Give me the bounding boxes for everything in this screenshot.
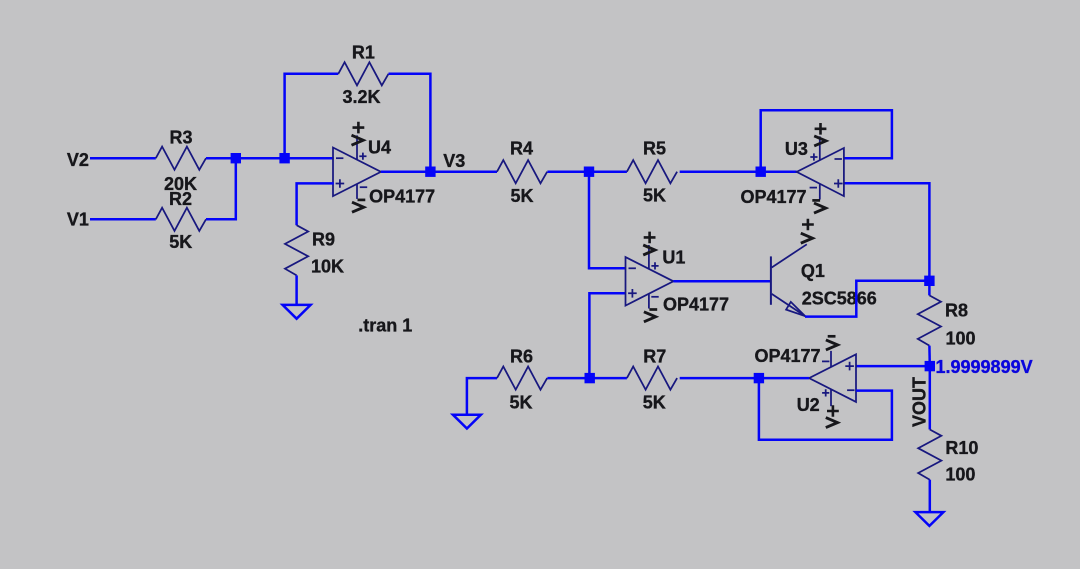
U2 V- pin marker [822, 360, 829, 362]
junction C [584, 167, 594, 177]
Q1 emitter line [772, 294, 806, 316]
wire junction E up to U1 non-inverting input [589, 293, 625, 378]
svg-text:R3: R3 [169, 127, 192, 147]
U2 V- power pin [830, 351, 832, 367]
svg-text:R8: R8 [945, 301, 968, 321]
svg-text:5K: 5K [169, 232, 192, 252]
resistor R3 [156, 147, 206, 170]
svg-text:10K: 10K [311, 257, 344, 277]
U4 V- power pin [356, 184, 358, 199]
wire junction B up to R1 [285, 74, 339, 158]
wire R6 to junction E [547, 377, 589, 380]
wire R3 to junction A [206, 157, 236, 160]
resistor R6 [497, 367, 547, 390]
resistor R2 [156, 208, 206, 231]
junction F [924, 276, 934, 286]
U3 V+ pin marker [810, 153, 817, 160]
resistor R9 [285, 225, 308, 275]
resistor R8 [918, 295, 941, 345]
wire junction B to U4 inverting input [285, 157, 334, 160]
svg-text:3.2K: 3.2K [342, 87, 380, 107]
svg-text:R9: R9 [312, 229, 335, 249]
net label V+ at U1 [644, 232, 656, 244]
net label V- at U3 [812, 199, 820, 202]
wire junction E to R7 [590, 377, 627, 380]
ground at R9 [283, 305, 311, 319]
net label V+ at U4 [353, 122, 365, 134]
wire junction F to R8 [928, 281, 931, 296]
Q1 emitter arrow [786, 302, 805, 316]
svg-text:U1: U1 [662, 247, 685, 267]
wire R7 to junction H [680, 377, 759, 380]
svg-text:5K: 5K [643, 186, 666, 206]
junction G [925, 361, 935, 371]
U2 inverting input marker [847, 389, 854, 391]
ground at R6 [453, 415, 481, 429]
junction H [754, 373, 764, 383]
U4 V- pin marker [360, 186, 367, 188]
svg-text:.tran 1: .tran 1 [358, 315, 412, 335]
svg-text:Q1: Q1 [801, 261, 825, 281]
ground at R10 [915, 512, 943, 526]
svg-text:V3: V3 [443, 151, 465, 171]
svg-text:U3: U3 [785, 139, 808, 159]
U1 inverting input marker [629, 267, 636, 269]
svg-text:U2: U2 [797, 395, 820, 415]
svg-text:V1: V1 [67, 209, 89, 229]
net label V- at U4 [358, 199, 366, 202]
U4 V+ pin marker [359, 153, 366, 160]
net label V- at U2 [828, 335, 836, 338]
wire junction D to U3 output [761, 170, 797, 173]
wire junction G to U2 non-inverting input [856, 365, 930, 368]
svg-text:R4: R4 [510, 139, 533, 159]
svg-text:2SC5866: 2SC5866 [802, 288, 877, 308]
svg-text:OP4177: OP4177 [741, 187, 807, 207]
transistor Q1 base bar [770, 256, 772, 304]
svg-text:5K: 5K [510, 186, 533, 206]
resistor R1 [338, 62, 388, 85]
svg-text:100: 100 [946, 328, 976, 348]
U3 non-inverting input marker [834, 179, 843, 188]
net label V+ at U2 [827, 405, 839, 417]
svg-text:5K: 5K [509, 393, 532, 413]
U3 V+ power pin [819, 136, 821, 160]
junction A [231, 153, 241, 163]
wire V1 lead [90, 218, 156, 221]
svg-text:R10: R10 [945, 438, 978, 458]
U4 V+ power pin [356, 135, 358, 159]
wire R5 to junction D [680, 170, 761, 173]
Q1 collector line [772, 244, 807, 267]
wire R2 up to junction A [206, 158, 236, 219]
wire R8 to junction G [928, 346, 931, 367]
wire U2 output to junction H [759, 377, 809, 380]
svg-text:R5: R5 [643, 139, 666, 159]
svg-text:R2: R2 [169, 189, 192, 209]
svg-text:100: 100 [945, 464, 975, 484]
U2 V+ pin marker [822, 389, 829, 396]
svg-text:R6: R6 [510, 347, 533, 367]
op-amp U1 triangle [626, 257, 674, 306]
U3 V- power pin [819, 184, 821, 199]
wire U4 non-inverting input to R9 [297, 183, 334, 225]
junction E [585, 373, 595, 383]
U4 non-inverting input marker [336, 179, 345, 188]
U4 inverting input marker [336, 157, 343, 159]
wire Q1 emitter to junction F [805, 281, 929, 317]
U1 V- pin marker [651, 296, 658, 298]
svg-text:U4: U4 [368, 137, 391, 157]
resistor R5 [627, 160, 677, 183]
U1 non-inverting input marker [628, 289, 637, 298]
wire ground to R6 [467, 378, 497, 415]
net label V- at U1 [649, 308, 657, 311]
wire U4 output to V3 node [381, 170, 430, 173]
U3 inverting input marker [835, 158, 842, 160]
U2 V+ power pin [830, 389, 832, 406]
wire U3 feedback loop [761, 110, 892, 171]
junction V3 [425, 167, 435, 177]
U1 V+ power pin [648, 245, 650, 269]
svg-text:V2: V2 [67, 150, 89, 170]
wire U1 output to Q1 base [673, 280, 771, 283]
wire R9 to ground [295, 275, 298, 305]
junction B [279, 153, 289, 163]
op-amp U2 triangle [809, 354, 856, 402]
wire V2 lead [90, 157, 156, 160]
wire junction G down to R10 [929, 366, 932, 429]
net label V+ at U3 [815, 123, 827, 135]
op-amp U3 triangle [797, 148, 844, 196]
U2 non-inverting input marker [845, 362, 854, 371]
resistor R7 [627, 367, 677, 390]
wire R1 down to V3 node [389, 74, 431, 172]
wire U3 non-inverting input down to junction F [844, 183, 930, 281]
svg-text:OP4177: OP4177 [755, 346, 821, 366]
resistor R10 [918, 430, 941, 480]
svg-text:R7: R7 [643, 347, 666, 367]
U3 V- pin marker [810, 187, 817, 189]
svg-text:OP4177: OP4177 [369, 187, 435, 207]
junction D [756, 167, 766, 177]
U1 V+ pin marker [651, 262, 658, 269]
wire R10 to ground [929, 480, 932, 513]
wire junction C to R5 [589, 170, 627, 173]
wire U2 feedback loop [759, 378, 892, 440]
svg-text:R1: R1 [352, 43, 375, 63]
U1 V- power pin [648, 294, 650, 309]
wire R4 to junction C [547, 170, 589, 173]
resistor R4 [497, 160, 547, 183]
op-amp U4 triangle [333, 148, 381, 197]
svg-text:OP4177: OP4177 [663, 294, 729, 314]
wire junction C down to U1 inverting input [589, 172, 626, 269]
svg-text:1.9999899V: 1.9999899V [936, 357, 1033, 377]
svg-text:5K: 5K [643, 393, 666, 413]
svg-text:VOUT: VOUT [909, 377, 929, 427]
wire junction A to junction B [236, 157, 285, 160]
wire V3 to R4 [430, 170, 497, 173]
net label V+ at Q1 collector [802, 219, 814, 231]
